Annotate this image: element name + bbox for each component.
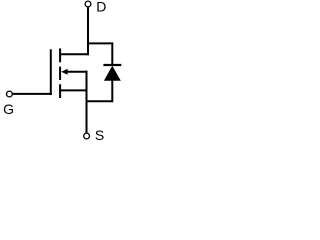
wire gate [13,93,52,95]
svg-text:S: S [95,127,104,143]
diode D1 anode triangle [104,66,121,81]
wire body-source vertical [86,71,88,133]
terminal D [85,1,91,7]
MOSFET Q1 bottom channel bar [59,84,61,98]
wire diode top branch [88,43,112,65]
wire diode bottom branch [87,80,113,101]
MOSFET Q1 gate bar [50,49,52,95]
terminal S [84,133,90,139]
diode D1 cathode bar [103,64,121,66]
wire drain vertical [87,7,89,55]
MOSFET Q1 middle channel bar [59,67,61,80]
wire drain stub [60,53,89,55]
svg-text:D: D [96,0,106,14]
svg-text:G: G [3,101,14,117]
MOSFET Q1 top channel bar [59,48,61,62]
wire body stub [67,71,88,73]
MOSFET Q1 body arrow [61,69,67,75]
wire source stub [60,89,88,91]
terminal G [6,91,12,97]
